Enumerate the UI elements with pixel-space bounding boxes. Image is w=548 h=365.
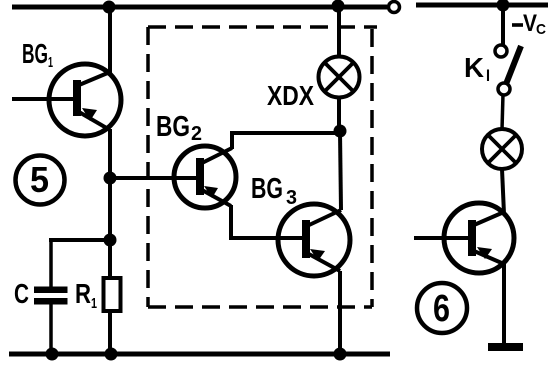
switch K1 : blade [506, 46, 521, 84]
label BG1 [22, 38, 53, 71]
transistor BG1 [49, 64, 121, 136]
wire : bottom rail (figure 5) [9, 352, 390, 357]
node : junction dot bottom rail / R1 [105, 348, 118, 361]
switch K1 : lower contact [498, 83, 510, 95]
label R1 [75, 278, 97, 312]
wire : switch to lamp [502, 94, 503, 130]
ground symbol [488, 343, 523, 351]
wire : R1 top lead [108, 240, 112, 280]
svg-text:1: 1 [48, 54, 53, 71]
svg-text:5: 5 [30, 159, 49, 200]
svg-text:1: 1 [91, 295, 97, 312]
label BG2 [156, 111, 202, 145]
node : junction dot top rail / BG1 collector line [103, 1, 116, 14]
wire : vertical from top rail down to BG1 collector [108, 7, 112, 73]
svg-text:C: C [14, 278, 29, 309]
transistor BG2 [174, 146, 236, 208]
wire : top supply rail (figure 6) [416, 3, 548, 8]
lamp : circle with X (figure 6) [482, 129, 522, 169]
label BG3 [251, 173, 297, 209]
svg-text:R: R [75, 278, 91, 309]
label K1 [464, 52, 490, 85]
label 6 : figure number circle [417, 283, 467, 333]
wire : lamp to transistor collector [502, 169, 504, 214]
label C [14, 278, 29, 309]
wire : lamp top lead from rail [337, 7, 341, 58]
wire : BG2 collector horizontal to lamp branch [230, 131, 340, 135]
node : open terminal at right end of top rail [389, 2, 400, 13]
wire : top supply rail (figure 5) [12, 5, 387, 10]
node : junction dot bottom rail / C [46, 348, 59, 361]
wire : BG2 emitter stub down [229, 205, 233, 240]
svg-text:3: 3 [286, 187, 297, 209]
label -Vc : negative supply [512, 10, 546, 38]
wire : transistor base lead (figure 6) [414, 236, 470, 240]
resistor R1 [104, 278, 121, 311]
transistor (figure 6) [444, 203, 514, 273]
dashed functional block box [148, 27, 377, 307]
svg-text:2: 2 [191, 123, 202, 145]
svg-text:BG: BG [251, 173, 283, 205]
wire : BG2 collector stub up [230, 131, 234, 149]
label XDX [267, 80, 314, 111]
svg-text:K: K [464, 52, 484, 83]
node : junction dot top rail figure 6 [497, 0, 510, 12]
wire : from rail down to switch [501, 5, 505, 46]
wire : BG2 emitter to BG3 base [229, 236, 305, 240]
svg-text:6: 6 [433, 288, 450, 330]
wire : BG2 base lead from junction [110, 176, 196, 180]
wire : BG3 emitter down to bottom rail [338, 271, 342, 354]
wire : emitter down to ground [502, 263, 506, 346]
node : junction dot C/R1 tap [104, 234, 117, 247]
node : junction dot BG2 base tap [104, 172, 117, 185]
node : junction dot bottom rail / BG3 emitter [334, 348, 347, 361]
wire : capacitor bottom lead [49, 302, 53, 354]
svg-text:BG: BG [22, 38, 48, 69]
node : junction dot top rail / lamp branch [332, 0, 345, 13]
svg-text:C: C [536, 21, 546, 38]
svg-text:I: I [486, 66, 490, 85]
svg-text:XDX: XDX [267, 80, 314, 111]
svg-text:BG: BG [156, 111, 190, 143]
wire : vertical down to BG3 collector [340, 132, 341, 210]
switch K1 : upper contact [495, 45, 507, 57]
wire : capacitor branch horizontal [49, 238, 110, 242]
capacitor C [34, 287, 68, 305]
wire : capacitor top lead [49, 240, 53, 289]
wire : main vertical below BG1 down to bottom rail [108, 129, 112, 354]
wire : lamp bottom lead to collector node [337, 97, 341, 134]
label 5 : figure number circle [16, 156, 65, 205]
transistor BG3 [278, 204, 350, 276]
lamp XDX : circle with X [319, 57, 360, 98]
wire : BG1 base lead [12, 97, 75, 101]
wire : R1 bottom lead [108, 311, 112, 354]
svg-text:V: V [523, 10, 537, 37]
node : junction dot lamp / BG2 collector / BG3 collector [334, 125, 347, 138]
